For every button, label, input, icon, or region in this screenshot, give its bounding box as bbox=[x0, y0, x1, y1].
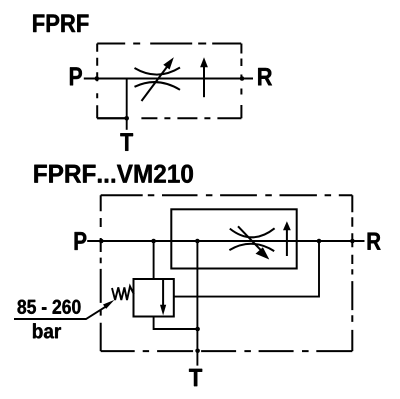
port R label (bottom) bbox=[368, 233, 381, 250]
junction dot R / box edge (bottom) bbox=[350, 239, 355, 244]
flow arrow up (top) bbox=[203, 66, 205, 97]
restrictor adjust arrow (bottom, down-right) bbox=[238, 226, 261, 250]
enclosure box FPRF (dash-dot) bbox=[97, 44, 241, 119]
junction dot T / box edge (bottom) bbox=[195, 349, 200, 354]
junction dot compensator branch bbox=[317, 239, 322, 244]
title label FPRF...VM210 bbox=[34, 165, 193, 183]
port P label (top) bbox=[70, 67, 82, 85]
wire relief branch down bbox=[153, 241, 155, 279]
junction dot T branch bbox=[195, 239, 200, 244]
junction dot R / box edge bbox=[240, 76, 245, 81]
port T label (top) bbox=[120, 133, 133, 151]
relief outlet wire bbox=[154, 317, 198, 330]
compensator pilot wire bbox=[174, 241, 319, 297]
junction dot relief branch bbox=[151, 239, 156, 244]
wire T (bottom) bbox=[196, 241, 198, 366]
restrictor adjust arrow (top, up-right) bbox=[142, 66, 169, 102]
wire P-R (bottom) bbox=[87, 240, 364, 242]
port P label (bottom) bbox=[75, 232, 87, 250]
leader line to spring bbox=[14, 307, 106, 319]
title label FPRF bbox=[33, 15, 88, 33]
pressure setting label bar bbox=[33, 323, 61, 338]
relief valve body bbox=[134, 279, 174, 317]
junction dot P / box edge (bottom) bbox=[99, 239, 104, 244]
wire P-R (top) bbox=[84, 78, 253, 80]
relief spring bbox=[112, 286, 134, 300]
junction dot T / box edge (top) bbox=[124, 116, 129, 121]
port T label (bottom) bbox=[189, 369, 202, 386]
variable restrictor arcs (bottom) bbox=[230, 228, 275, 237]
compensator valve body rect bbox=[171, 209, 296, 268]
enclosure box VM210 (dash-dot) bbox=[101, 195, 353, 351]
wire T branch (top) bbox=[126, 79, 128, 130]
variable restrictor arcs (top) bbox=[135, 68, 181, 75]
flow arrow up (bottom) bbox=[286, 230, 288, 257]
pressure setting label 85 - 260 bbox=[18, 300, 81, 314]
port R label (top) bbox=[258, 68, 272, 85]
solid bottom edge segment to T junction bbox=[97, 117, 127, 119]
relief flow arrow down bbox=[162, 280, 164, 307]
junction dot relief outlet / T wire bbox=[195, 327, 200, 332]
junction dot P / box edge bbox=[95, 76, 100, 81]
